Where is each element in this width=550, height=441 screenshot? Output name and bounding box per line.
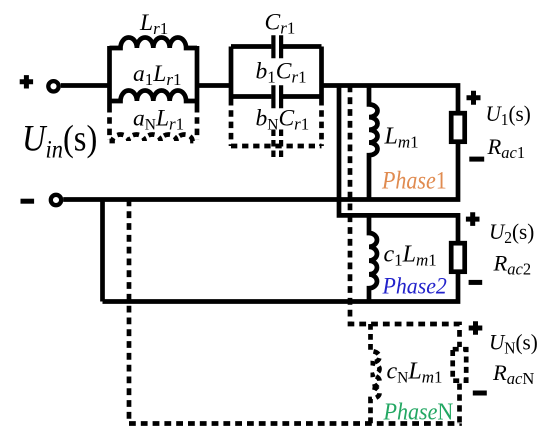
- resistor RacN dashed: [453, 349, 467, 381]
- wire minus rail and phase1 right branch lower: [63, 144, 458, 200]
- wire between banks: [197, 83, 231, 88]
- svg-text:Cr1: Cr1: [265, 10, 296, 38]
- inductor bank left rail dashed: [107, 106, 112, 140]
- minus sign input: [21, 199, 35, 204]
- svg-text:Lm1: Lm1: [384, 124, 419, 152]
- svg-text:U1(s): U1(s): [486, 101, 531, 129]
- wire drop to phase2: [339, 86, 458, 242]
- svg-text:c1Lm1: c1Lm1: [384, 242, 437, 270]
- svg-text:Phase2: Phase2: [382, 273, 447, 299]
- capacitor bank left rail solid: [229, 47, 234, 100]
- capacitor b1Cr1 plates: [273, 85, 281, 108]
- capacitor bank right rail solid: [319, 47, 324, 100]
- capacitor bank left rail dashed: [229, 99, 234, 146]
- inductor aNLr1 dashed: [110, 135, 198, 142]
- resistor Rac1: [451, 113, 465, 142]
- inductor Lr1: [110, 38, 198, 48]
- minus sign phase1: [469, 157, 484, 162]
- terminal circle plus: [48, 81, 58, 91]
- capacitor bNCr1 plates dashed: [273, 130, 281, 161]
- svg-text:aNLr1: aNLr1: [133, 106, 184, 134]
- capacitor b1Cr1 wires: [231, 94, 322, 99]
- svg-text:Lr1: Lr1: [139, 10, 168, 38]
- svg-text:b1Cr1: b1Cr1: [256, 59, 307, 87]
- wire phaseN bottom dashed: [129, 421, 460, 426]
- svg-text:Rac1: Rac1: [487, 134, 526, 162]
- wire left drop solid: [100, 200, 105, 302]
- inductor c1Lm1 branch: [369, 215, 377, 301]
- svg-text:UN(s): UN(s): [489, 330, 538, 358]
- plus sign input: [20, 75, 33, 88]
- capacitor Cr1 wires: [231, 44, 322, 49]
- svg-text:Phase1: Phase1: [381, 167, 447, 195]
- inductor Lm1 branch: [369, 86, 378, 200]
- wire top rail right: [322, 86, 459, 112]
- wire drop dashed to phaseN: [350, 86, 460, 348]
- svg-text:Rac2: Rac2: [493, 251, 532, 279]
- capacitor Cr1 plates: [273, 35, 281, 58]
- svg-text:U2(s): U2(s): [489, 219, 534, 247]
- inductor cNLm1 branch dashed: [371, 324, 380, 424]
- svg-text:a1Lr1: a1Lr1: [133, 61, 181, 89]
- inductor bank right rail dashed: [195, 106, 200, 140]
- minus sign phase2: [469, 280, 483, 285]
- inductor bank left rail solid: [107, 46, 112, 106]
- plus sign phase2: [466, 212, 480, 226]
- svg-text:RacN: RacN: [492, 360, 534, 388]
- phaseN right branch dashed: [457, 384, 462, 424]
- terminal circle minus: [51, 195, 61, 205]
- capacitor bank right rail dashed: [319, 99, 324, 146]
- inductor a1Lr1: [110, 91, 198, 101]
- svg-text:Uin(s): Uin(s): [22, 118, 97, 164]
- svg-text:cNLm1: cNLm1: [387, 359, 443, 387]
- svg-text:bNCr1: bNCr1: [256, 106, 310, 134]
- plus sign phaseN: [469, 321, 483, 335]
- wire left drop dashed: [127, 200, 132, 424]
- svg-text:PhaseN: PhaseN: [383, 398, 454, 425]
- wire input top: [61, 83, 110, 88]
- minus sign phaseN: [473, 391, 487, 396]
- wire phase2 bottom and right branch lower: [103, 274, 459, 302]
- capacitor bNCr1 wire dashed: [231, 144, 322, 149]
- inductor bank right rail solid: [195, 46, 200, 106]
- plus sign phase1: [467, 91, 481, 105]
- resistor Rac2: [451, 243, 465, 272]
